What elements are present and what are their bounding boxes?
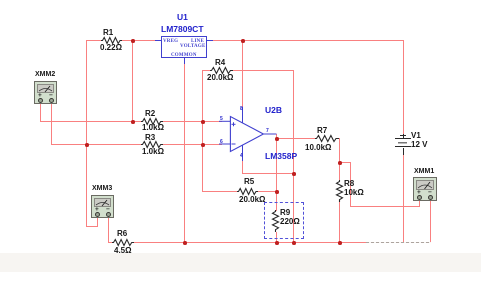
- wire: left vertical from R1 down to XMM3 plus: [86, 40, 87, 226]
- wire: R7 right corner vertical down to R8: [339, 138, 340, 180]
- wire: R4/R5 left vertical branch: [202, 70, 203, 191]
- wire: ground rail left piece: [108, 242, 113, 243]
- junction node: left vertical on R3 line: [85, 143, 89, 147]
- resistor R5: [237, 187, 258, 196]
- pin 8: [240, 107, 243, 113]
- wire: XMM1 plus vertical stub: [419, 200, 420, 207]
- wire: XMM1 plus branch horizontal at 162: [339, 162, 351, 163]
- junction node: R1 right / U1 input: [131, 39, 135, 43]
- wire: R3 line left part: [51, 144, 141, 145]
- wire: V1 top vertical: [403, 40, 404, 135]
- wire: V1 bottom vertical: [403, 154, 404, 243]
- wire: R2 line right part to opamp: [163, 121, 222, 122]
- wire: ground rail main: [134, 242, 366, 243]
- wire: R4 right vertical down to rail: [293, 70, 294, 243]
- junction node: R7/R8/XMM1: [338, 161, 342, 165]
- wire: R8 bottom lead to rail: [339, 202, 340, 243]
- junction node: U1 common on rail: [183, 241, 187, 245]
- resistor R7: [315, 134, 339, 143]
- resistor R9 (vertical): [271, 210, 280, 232]
- junction node: top rail to opamp V+: [241, 39, 245, 43]
- wire: XMM1 plus branch vertical: [350, 162, 351, 207]
- wire: opamp pin4 vertical red: [242, 160, 243, 174]
- multimeter XMM1: [414, 168, 434, 176]
- resistor R8 (vertical): [335, 180, 344, 202]
- pin 6: [220, 140, 223, 146]
- wire: R5 right lead to feedback vertical: [258, 191, 277, 192]
- wire: feedback vertical from output through R9: [276, 134, 277, 211]
- op-amp U2B LM358P: [219, 105, 279, 165]
- multimeter XMM3: [92, 185, 112, 193]
- wire: R4 left lead: [202, 70, 211, 71]
- wire: U1 right stub to top rail, to V1 corner: [213, 40, 404, 41]
- wire: ground rail faint dashed right part: [366, 242, 431, 243]
- junction node: branch on R3 line: [201, 143, 205, 147]
- wire: XMM3 plus vertical stub: [97, 217, 98, 227]
- resistor R4: [210, 66, 233, 75]
- wire: R1 right vertical down to R2 line: [132, 40, 133, 122]
- wire: XMM2 minus down: [51, 102, 52, 145]
- wire: R9 bottom lead: [276, 232, 277, 243]
- resistor R1: [101, 36, 122, 45]
- wire: opamp pin4 horizontal to ground branch: [242, 173, 294, 174]
- wire: XMM3 plus horizontal: [86, 226, 98, 227]
- junction node: R5 right / feedback: [275, 190, 279, 194]
- wire: R1 left lead: [86, 40, 102, 41]
- junction node: R9 on rail: [275, 241, 279, 245]
- pin 5: [220, 117, 223, 123]
- resistor R3: [141, 140, 163, 149]
- wire: XMM2 plus down: [40, 102, 41, 122]
- multimeter XMM2: [35, 71, 55, 79]
- wire: R4 right to feedback corner: [233, 70, 294, 71]
- wire: opamp V+ vertical red part: [242, 40, 243, 107]
- wire: R2 line left part: [40, 121, 141, 122]
- resistor R2: [141, 117, 163, 126]
- junction node: R8 on rail: [338, 241, 342, 245]
- voltage regulator U1 LM7809CT: [155, 40, 161, 41]
- junction node: R4 branch on rail: [292, 241, 296, 245]
- wire: XMM3 minus vertical down: [108, 217, 109, 243]
- pin 7: [266, 129, 269, 135]
- battery V1: [403, 134, 404, 139]
- wire: XMM1 minus vertical down: [430, 200, 431, 242]
- resistor R6: [112, 238, 134, 247]
- dashed selection box around R9: [264, 202, 304, 239]
- pin 4: [240, 154, 243, 160]
- wire: R3 line right part to opamp: [163, 144, 222, 145]
- junction node: pin4 ground joint: [292, 172, 296, 176]
- wire: R5 left lead horizontal: [202, 191, 237, 192]
- wire: R7 left lead from output node: [276, 138, 316, 139]
- wire: top rail from R1 right to U1 left: [121, 40, 155, 41]
- wire: XMM1 plus horizontal at 206: [350, 206, 420, 207]
- wire: U1 common down to ground rail: [184, 63, 185, 243]
- junction node: R1 vertical on R2 line: [131, 120, 135, 124]
- junction node: branch on R2 line: [201, 120, 205, 124]
- junction node: opamp output: [275, 137, 279, 141]
